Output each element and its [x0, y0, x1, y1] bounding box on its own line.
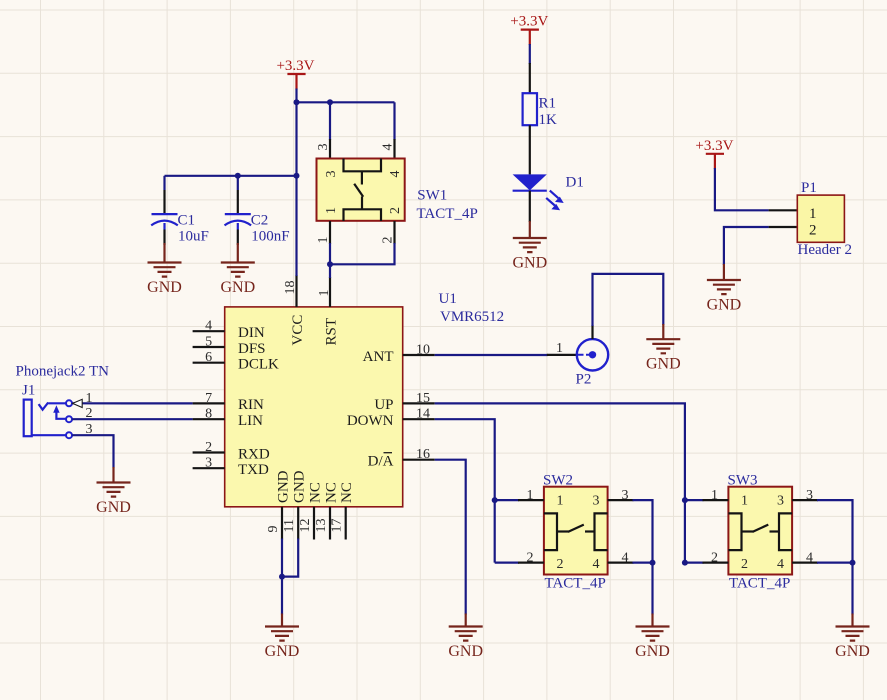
switch SW2 pin 2 lead	[495, 561, 519, 563]
switch SW1 pin 2 lead	[393, 221, 395, 244]
svg-text:2: 2	[388, 207, 403, 214]
junction SW3 pin2 corner	[682, 560, 688, 566]
svg-text:9: 9	[266, 526, 281, 533]
svg-text:C1: C1	[178, 213, 196, 229]
LED D1 cathode lead	[529, 191, 531, 222]
svg-text:GND: GND	[707, 297, 742, 314]
svg-text:4: 4	[381, 144, 396, 151]
switch SW3 pin 2 lead	[685, 561, 704, 563]
svg-text:GND: GND	[276, 470, 292, 503]
svg-text:DFS: DFS	[238, 341, 266, 357]
resistor R1 lead top	[529, 63, 531, 93]
junction RST net	[327, 261, 333, 267]
svg-text:GND: GND	[147, 279, 182, 296]
wire C2 stub	[237, 176, 239, 190]
svg-text:14: 14	[416, 407, 430, 422]
svg-text:3: 3	[324, 171, 339, 178]
U1 pin 2 RXD	[193, 451, 225, 453]
svg-text:P2: P2	[576, 372, 592, 388]
U1 pin 12 NC	[313, 507, 315, 540]
svg-text:1: 1	[527, 488, 534, 503]
svg-text:4: 4	[806, 550, 813, 565]
svg-text:15: 15	[416, 391, 430, 406]
svg-text:4: 4	[593, 557, 600, 572]
ground GND under D/A wire	[465, 614, 467, 627]
connector J1 ring contact arrow	[56, 413, 66, 419]
junction VCC/C-wire	[294, 173, 300, 179]
wire SW1 pin2 down and across	[330, 243, 395, 278]
connector P2 shield lead	[591, 325, 593, 339]
svg-text:TACT_4P: TACT_4P	[545, 576, 606, 592]
U1 pin 9 GND	[281, 507, 283, 540]
switch SW2 pin 1 lead	[495, 499, 519, 501]
junction C2	[235, 173, 241, 179]
capacitor C2	[237, 190, 239, 214]
junction SW3 pin1	[682, 497, 688, 503]
wire SW1 pin3 drop	[329, 102, 331, 140]
svg-text:GND: GND	[220, 279, 255, 296]
wire +3.3V to R1	[529, 44, 531, 64]
junction VCC/+3.3V	[294, 99, 300, 105]
svg-text:2: 2	[205, 440, 212, 455]
U1 pin 7 RIN	[193, 402, 225, 404]
switch SW3 pin 3 lead	[792, 499, 818, 501]
ground GND under C1	[163, 243, 165, 263]
svg-text:DCLK: DCLK	[238, 357, 279, 373]
U1 pin 8 LIN	[193, 418, 225, 420]
U1 pin 4 DIN	[193, 330, 225, 332]
svg-text:100nF: 100nF	[251, 229, 289, 245]
svg-text:1: 1	[86, 391, 93, 406]
svg-text:2: 2	[381, 237, 396, 244]
input port arrow at J1 pin1	[73, 399, 83, 407]
svg-text:8: 8	[205, 407, 212, 422]
svg-text:TXD: TXD	[238, 462, 269, 478]
svg-text:+3.3V: +3.3V	[695, 138, 733, 154]
U1 pin 16 D/A	[403, 459, 435, 461]
svg-text:2: 2	[809, 223, 817, 239]
svg-text:UP: UP	[374, 397, 393, 413]
svg-text:VCC: VCC	[290, 315, 306, 346]
svg-text:RST: RST	[324, 318, 340, 346]
svg-text:17: 17	[330, 519, 345, 533]
wire SW2 to GND	[651, 563, 653, 615]
svg-text:2: 2	[86, 406, 93, 421]
ground GND under U1	[281, 614, 283, 627]
U1 pin 1 RST	[329, 277, 331, 307]
switch SW1 pin 3 lead	[329, 139, 331, 159]
wire UP net to SW3	[435, 403, 685, 562]
svg-text:1: 1	[324, 207, 339, 214]
connector J1 tip contact	[39, 403, 49, 410]
wire ANT to P2	[435, 354, 548, 356]
resistor R1	[523, 93, 537, 125]
switch SW1 pin 4 lead	[393, 139, 395, 159]
wire VCC horizontal top	[297, 101, 395, 103]
connector J1 body sleeve	[24, 400, 32, 437]
svg-text:3: 3	[806, 488, 813, 503]
U1 pin 13 NC	[329, 507, 331, 540]
svg-text:18: 18	[283, 281, 298, 295]
svg-text:LIN: LIN	[238, 413, 263, 429]
svg-text:DIN: DIN	[238, 325, 265, 341]
svg-text:VMR6512: VMR6512	[440, 309, 504, 325]
header P1 pin 1 lead	[769, 209, 798, 211]
svg-text:10uF: 10uF	[178, 229, 209, 245]
ground GND under SW3	[851, 614, 853, 627]
switch SW1 pin 1 lead	[329, 221, 331, 244]
svg-text:10: 10	[416, 342, 430, 357]
svg-text:4: 4	[622, 550, 629, 565]
junction U1 gnd pins	[279, 574, 285, 580]
svg-text:C2: C2	[251, 213, 269, 229]
svg-text:U1: U1	[439, 291, 457, 307]
svg-text:3: 3	[86, 422, 93, 437]
header P1 pin 2 lead	[769, 226, 798, 228]
wire C1 stub	[163, 176, 165, 190]
wire U1 pin9 to GND	[281, 539, 283, 615]
svg-text:1: 1	[711, 488, 718, 503]
svg-text:GND: GND	[512, 255, 547, 272]
wire DOWN net to SW2	[435, 419, 495, 562]
connector J1 sleeve to pin3	[32, 434, 66, 436]
switch SW2 pin 3 lead	[608, 499, 634, 501]
svg-text:Header 2: Header 2	[798, 242, 853, 258]
svg-text:1: 1	[557, 493, 564, 508]
switch SW3 left contact plate	[728, 513, 741, 550]
connector P2 pin 1 lead	[547, 354, 577, 356]
wire SW1 pin4 drop	[393, 102, 395, 140]
wire J1 pin1 to RIN	[72, 402, 192, 404]
wire P1 pin2 to GND	[724, 227, 769, 265]
connector J1 pin circles	[66, 400, 72, 406]
svg-text:D1: D1	[566, 175, 584, 191]
switch SW3 body	[728, 487, 792, 575]
svg-text:+3.3V: +3.3V	[276, 58, 314, 74]
switch SW2 right contact plate	[595, 513, 608, 550]
wire SW3 to GND	[851, 563, 853, 615]
wire VCC to capacitors	[165, 175, 297, 177]
ground GND under P1	[723, 264, 725, 280]
switch SW1 body	[317, 159, 405, 221]
svg-text:4: 4	[205, 319, 212, 334]
LED D1	[513, 174, 547, 190]
capacitor C1	[163, 190, 165, 214]
svg-text:4: 4	[777, 557, 784, 572]
wire J1 pin2 to LIN	[72, 418, 192, 420]
svg-text:2: 2	[711, 550, 718, 565]
switch SW1 actuator	[361, 171, 363, 184]
svg-text:GND: GND	[265, 643, 300, 660]
switch SW2 actuator	[557, 530, 569, 532]
U1 pin 14 DOWN	[403, 418, 435, 420]
switch SW3 actuator	[742, 530, 754, 532]
svg-text:3: 3	[205, 456, 212, 471]
svg-text:DOWN: DOWN	[347, 413, 394, 429]
svg-text:P1: P1	[801, 180, 817, 196]
svg-text:11: 11	[282, 519, 297, 532]
svg-text:TACT_4P: TACT_4P	[729, 576, 790, 592]
svg-text:NC: NC	[308, 482, 324, 503]
svg-text:+3.3V: +3.3V	[510, 14, 548, 30]
svg-text:13: 13	[314, 519, 329, 533]
switch SW1 top contact plate	[344, 159, 382, 172]
ground GND under J1	[112, 467, 114, 483]
junction SW2 pin4	[650, 560, 656, 566]
svg-text:GND: GND	[646, 356, 681, 373]
svg-text:SW2: SW2	[543, 473, 573, 489]
svg-text:3: 3	[316, 144, 331, 151]
svg-text:NC: NC	[324, 482, 340, 503]
switch SW3 right contact plate	[779, 513, 792, 550]
svg-text:NC: NC	[339, 482, 355, 503]
svg-text:1: 1	[317, 290, 332, 297]
ic U1 body	[225, 307, 403, 507]
svg-text:3: 3	[622, 488, 629, 503]
header P1 body	[797, 195, 844, 242]
svg-text:3: 3	[593, 493, 600, 508]
ground GND under SW2	[651, 614, 653, 627]
U1 pin 3 TXD	[193, 467, 225, 469]
svg-text:2: 2	[741, 557, 748, 572]
wire U1 pin11 to pin9	[282, 539, 298, 577]
U1 pin 17 NC	[345, 507, 347, 540]
switch SW3 pin 4 lead	[792, 561, 818, 563]
U1 pin 10 ANT	[403, 354, 435, 356]
svg-text:Phonejack2 TN: Phonejack2 TN	[16, 364, 110, 380]
svg-text:D/A: D/A	[368, 454, 394, 470]
svg-text:4: 4	[388, 171, 403, 178]
svg-text:2: 2	[557, 557, 564, 572]
svg-text:RIN: RIN	[238, 397, 264, 413]
wire D/A net to GND	[435, 460, 466, 615]
svg-text:2: 2	[527, 550, 534, 565]
svg-text:SW1: SW1	[417, 188, 447, 204]
svg-text:7: 7	[205, 391, 212, 406]
svg-text:1: 1	[809, 206, 817, 222]
svg-text:TACT_4P: TACT_4P	[417, 206, 478, 222]
svg-text:J1: J1	[22, 383, 35, 399]
svg-text:GND: GND	[292, 470, 308, 503]
svg-text:1K: 1K	[539, 112, 558, 128]
wire VCC vertical to U1	[295, 102, 297, 276]
switch SW2 left contact plate	[544, 513, 557, 550]
svg-text:RXD: RXD	[238, 446, 270, 462]
wire J1 pin3 to GND	[72, 435, 113, 467]
switch SW3 pin 1 lead	[685, 499, 704, 501]
svg-text:16: 16	[416, 447, 430, 462]
ground GND under C2	[237, 243, 239, 263]
ground GND right of P2	[662, 324, 664, 339]
resistor R1 lead bottom / LED anode	[529, 125, 531, 174]
svg-text:GND: GND	[96, 499, 131, 516]
U1 pin 18 VCC	[295, 275, 297, 307]
svg-text:SW3: SW3	[728, 473, 758, 489]
wire SW1 pin1 to RST	[329, 243, 331, 264]
svg-text:5: 5	[205, 334, 212, 349]
junction SW3 pin4	[850, 560, 856, 566]
junction VCC/SW1 pin3	[327, 99, 333, 105]
U1 pin 5 DFS	[193, 346, 225, 348]
ground GND under D1	[529, 221, 531, 238]
svg-text:R1: R1	[539, 96, 557, 112]
U1 pin 15 UP	[403, 402, 435, 404]
svg-text:1: 1	[741, 493, 748, 508]
connector P2	[577, 339, 608, 370]
switch SW2 body	[544, 487, 608, 575]
switch SW1 bottom contact plate	[344, 209, 382, 221]
svg-text:ANT: ANT	[363, 349, 394, 365]
switch SW2 pin 4 lead	[608, 561, 634, 563]
junction SW2 pin1	[492, 497, 498, 503]
U1 pin 6 DCLK	[193, 362, 225, 364]
U1 pin 11 GND	[297, 507, 299, 540]
svg-text:GND: GND	[635, 643, 670, 660]
svg-text:3: 3	[777, 493, 784, 508]
svg-text:1: 1	[316, 237, 331, 244]
svg-text:1: 1	[556, 341, 563, 356]
svg-text:12: 12	[298, 519, 313, 533]
svg-text:6: 6	[205, 350, 212, 365]
svg-text:GND: GND	[835, 643, 870, 660]
wire P2 shield to GND	[593, 274, 664, 326]
svg-text:GND: GND	[448, 643, 483, 660]
wire +3.3V to P1 pin1	[715, 168, 769, 210]
